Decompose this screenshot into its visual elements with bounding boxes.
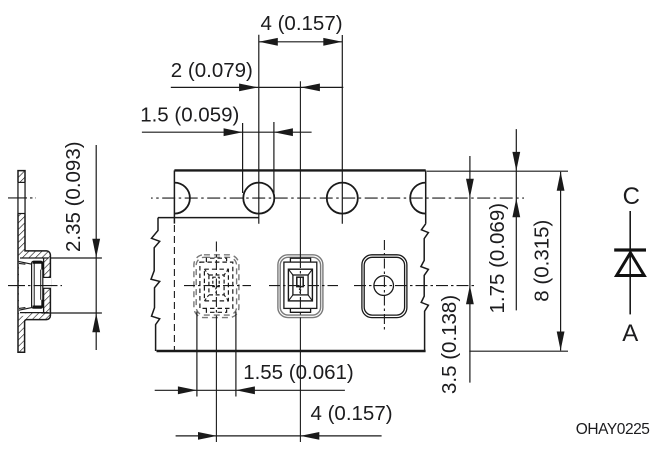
arrows dim 1.75 [512,152,520,171]
svg-text:1.75 (0.069): 1.75 (0.069) [486,203,509,314]
hole 1 vertical centerline (dashed, below step) [173,225,175,350]
side view tape web hatched body [18,171,50,353]
component in pocket: thin outline [32,261,43,308]
dimension texts [62,12,554,425]
side view pocket interior (white) [19,258,44,316]
arrowheads [92,38,564,440]
pocket 1 horizontal centerline [184,285,251,287]
dim "8 (0.315)": dimension line + extension lines [560,172,562,351]
pocket 2 horizontal centerline [269,285,338,287]
pocket 3 center hole circle [374,276,394,296]
dim "1.75 (0.069)": dimension line [515,129,517,310]
side view pocket sloped wall lines (bottom) [19,308,32,311]
tape left cut edge (through hole 1) [173,170,175,223]
tape bottom edge [157,350,426,352]
sprocket hole 1 (half, cut by tape end) [174,183,189,214]
svg-text:C: C [623,183,640,210]
side view pocket inner top surface [20,257,49,259]
pocket 2 outer rounded rect (gray) [278,255,323,318]
dim "4 (0.157)" top: extension lines [258,35,260,224]
diode triangle [617,253,645,276]
sprocket hole 3 [327,183,358,214]
pocket 2 component bevel rect [293,275,308,295]
pocket 2 bevel corner diagonals [288,269,312,301]
side view pocket inner bottom surface [20,312,49,314]
pocket 2 top tab [290,258,310,262]
pocket 1 component bevel rect (dashed) [209,275,224,295]
arrows dim 2.35 [92,239,100,258]
side view pocket inner right (bottom of pocket) surface [43,258,45,313]
dim "1.55 (0.061)": dimension line [155,389,345,391]
svg-text:4 (0.157): 4 (0.157) [261,12,343,35]
svg-text:1.55 (0.061): 1.55 (0.061) [243,361,354,384]
pocket 2 die mark squiggle [300,287,301,294]
pocket 1 vertical centerline [215,242,217,321]
pocket 1 inner rounded rect (gray dashed) [196,257,236,315]
diode wire (continuous) [629,211,631,314]
component inner thin line right [40,270,42,300]
sprocket hole 2 [243,183,274,214]
pocket 1 outer rounded rect (gray dashed) [194,255,239,318]
pocket 1 bevel corner diagonals (dashed) [204,269,228,301]
arrows dim 2: outside pointing inward [239,84,258,92]
svg-text:2.35 (0.093): 2.35 (0.093) [62,141,85,252]
tape left zigzag break edge [151,218,160,351]
side view pocket centerline [8,285,62,287]
pocket 1 opening rect (black dashed) [200,262,233,308]
pocket 2 opening rect [284,262,317,308]
dim "2 (0.079)": dimension line [171,86,258,88]
side view hole centerline [8,197,36,199]
dim "3.5 (0.138)": dimension line [469,156,471,383]
pocket 1 centerline extension to bottom dim [215,321,217,443]
svg-text:OHAY0225: OHAY0225 [576,421,650,438]
pocket 1 die mark squiggle (dashed) [216,287,217,294]
pocket 1 top tab (dashed) [206,258,226,262]
tape right zigzag break edge [421,224,429,351]
pocket 2 die rect [297,277,303,286]
dim "4 (0.157)" bottom: dimension line [176,435,382,437]
dim "2.35 (0.093)": dimension line + extension lines [95,145,97,350]
pocket 2 vertical centerline (from 2-dim down to bottom 4-dim) [299,81,301,256]
pocket 3 horizontal centerline (extends right to 3.5 dim) [354,285,475,287]
tape right cut edge (through hole 4) [425,170,427,223]
dim "1.55 (0.061)": extension lines [196,312,198,397]
side view pocket sloped wall lines (top) [19,262,32,265]
arrows dim 1.55 [178,386,197,394]
component bottom terminal (thick) [33,300,43,307]
svg-text:3.5 (0.138): 3.5 (0.138) [438,295,461,394]
component top terminal (thick) [33,262,43,269]
pocket 2 component body rect [288,269,312,301]
arrows top dim 4: inside pointing outward [259,38,278,46]
arrows dim 1.5 [224,128,243,136]
svg-text:A: A [622,320,638,347]
pocket 1 component body rect (dashed) [204,269,228,301]
dim "4 (0.157)" top: dimension line [259,41,343,43]
svg-text:2 (0.079): 2 (0.079) [171,59,253,82]
arrows dim 8: inside pointing outward [557,172,565,191]
pocket 3 vertical centerline [383,240,385,332]
pocket 2 bottom tab [290,308,310,312]
pocket 3 inner rounded rect [364,257,404,315]
svg-text:8 (0.315): 8 (0.315) [530,220,553,302]
pocket 1 die rect (dashed) [213,277,219,286]
pocket 2 inner rounded rect (gray) [280,257,320,315]
component inner thin line left [33,263,35,305]
pocket 1 bottom tab (dashed) [206,308,226,312]
svg-text:1.5 (0.059): 1.5 (0.059) [140,104,239,127]
hole row centerline (dash-dot) [151,197,524,199]
arrows dim 4 bottom [198,432,217,440]
svg-text:4 (0.157): 4 (0.157) [311,402,393,425]
diode cathode bar [614,248,646,251]
dim "1.5 (0.059)": dimension line [142,131,312,133]
pocket 3 outer rounded rect [362,255,407,318]
tape top edge [174,169,425,171]
side view sprocket hole gap (white window) [17,182,26,213]
side view pocket bottom hole notch (white gap in right wall) [43,277,51,288]
sprocket hole 4 (half, cut by tape end) [410,183,426,214]
arrows dim 3.5 [466,179,474,198]
dim "1.5 (0.059)": extension lines (hole tangents) [242,123,244,193]
tape left step line [158,217,259,219]
